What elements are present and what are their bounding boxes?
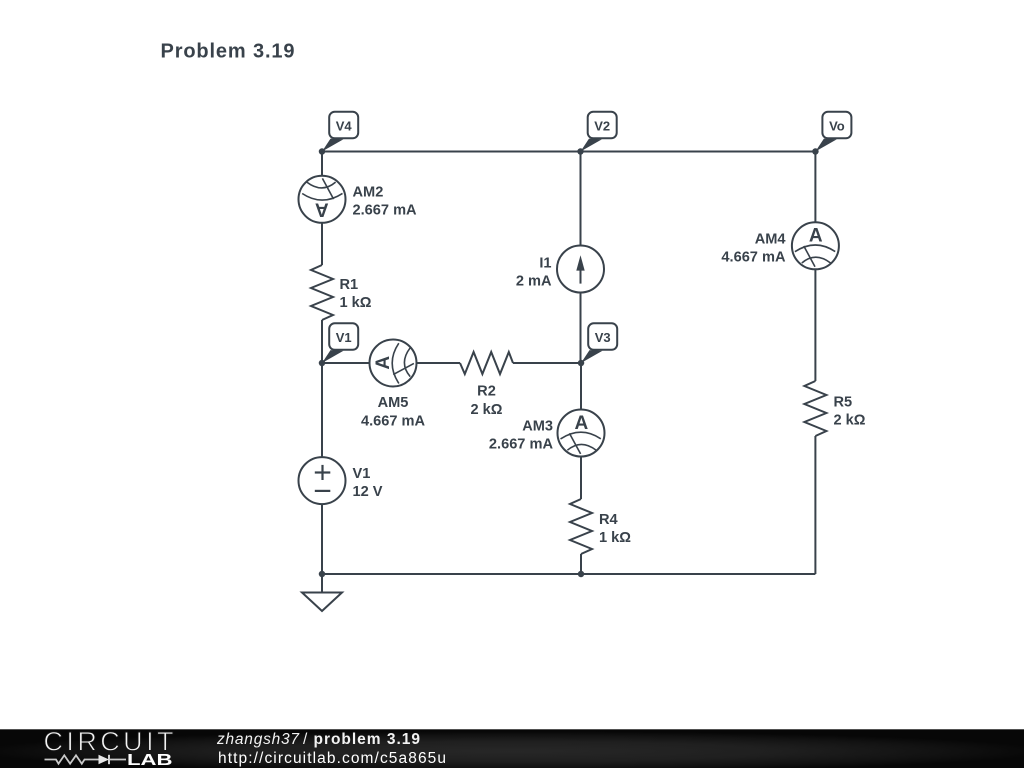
ammeter AM3	[558, 410, 605, 457]
node V3 callout	[581, 323, 617, 363]
resistor R4	[570, 499, 592, 554]
junction dot V4	[319, 148, 326, 155]
wire Vo node to AM4	[814, 152, 816, 223]
node V1 callout	[322, 323, 358, 363]
svg-text:LAB: LAB	[127, 752, 173, 768]
junction dot V1	[319, 360, 326, 367]
wire AM5 to R2	[417, 362, 461, 364]
svg-text:/: /	[303, 731, 308, 748]
logo resistor-diode line	[45, 755, 127, 764]
current source I1	[557, 246, 604, 293]
ammeter AM2	[299, 176, 346, 223]
ground	[302, 593, 342, 612]
svg-text:V4: V4	[336, 118, 353, 133]
wire R1 to V1 node	[321, 320, 323, 363]
junction dot Vo	[812, 148, 819, 155]
footer bar	[0, 729, 1024, 768]
wire V3 node to AM3	[580, 363, 582, 410]
resistor R1	[311, 265, 333, 320]
wire AM4 to R5	[814, 269, 816, 381]
node V2 callout	[581, 112, 617, 152]
ammeter AM4	[792, 222, 839, 269]
node V4 callout	[322, 112, 358, 152]
svg-text:V1: V1	[336, 330, 352, 345]
svg-text:http://circuitlab.com/c5a865u: http://circuitlab.com/c5a865u	[218, 750, 446, 767]
wire bottom rail	[322, 573, 815, 575]
wire AM2 to R1	[321, 223, 323, 265]
wire R5 to bottom corner	[814, 436, 816, 574]
wire top rail V4-V2-Vo	[322, 151, 815, 153]
svg-text:Vo: Vo	[829, 118, 845, 133]
ammeter AM5	[370, 340, 417, 387]
svg-text:zhangsh37: zhangsh37	[216, 731, 300, 748]
resistor R2	[460, 352, 513, 374]
wire V1 node to V1 source	[321, 363, 323, 457]
wire R2 to V3 node	[513, 362, 581, 364]
wire V1 source to bottom rail	[321, 504, 323, 574]
voltage source V1	[299, 457, 346, 504]
node Vo callout	[815, 112, 851, 152]
wire V2 node to I1	[580, 152, 582, 247]
wire V4 node to AM2	[321, 152, 323, 177]
svg-text:Problem 3.19: Problem 3.19	[161, 41, 295, 63]
wire AM3 to R4	[580, 456, 582, 499]
resistor R5	[804, 381, 826, 436]
wire middle rail V1 node to AM5	[322, 362, 370, 364]
junction dot V3	[578, 360, 585, 367]
wire R4 to bottom rail	[580, 554, 582, 574]
svg-text:problem 3.19: problem 3.19	[314, 731, 421, 748]
svg-text:V2: V2	[594, 118, 610, 133]
wire I1 to V3 node	[580, 292, 582, 363]
junction dot V2	[577, 148, 584, 155]
svg-text:V3: V3	[595, 330, 611, 345]
junction dot bottom left	[319, 571, 326, 578]
junction dot bottom middle	[578, 571, 585, 578]
wire ground stub	[321, 574, 323, 593]
